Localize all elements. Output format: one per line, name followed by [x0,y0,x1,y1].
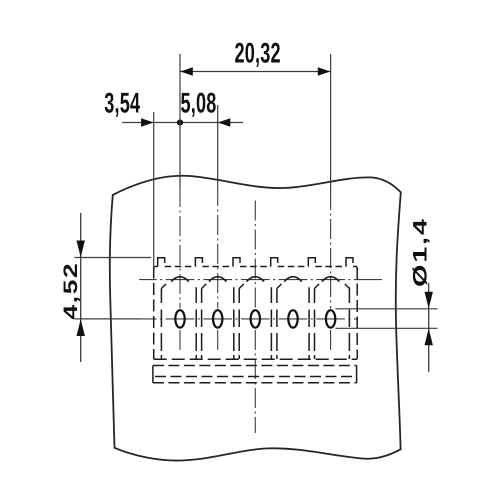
extension line housing left edge [153,112,155,266]
housing top profile with latch tabs (hidden line) [154,258,358,267]
dimension 4,52 (tab top to hole centerline) [60,213,151,362]
svg-text:4,52: 4,52 [60,262,82,320]
housing right outer wall (hidden) [356,267,358,359]
contact chamber walls with chamfers (hidden) [161,284,349,359]
housing left outer wall (hidden) [153,267,155,360]
flange right edge [356,366,358,383]
flange left edge [152,366,154,383]
svg-text:5,08: 5,08 [181,88,217,120]
svg-text:Ø1,4: Ø1,4 [410,217,432,287]
hole pin 5 (oblong 1.4 mm) [326,310,335,327]
pin 2 centerline (dash-dot) [217,186,219,353]
pin 5 centerline (dash-dot) [330,190,332,353]
dimension Ø1,4 (hole diameter) [336,217,438,372]
hole pin 3 (oblong 1.4 mm) [251,310,260,327]
pin 1 centerline (dash-dot) [179,187,181,353]
svg-text:20,32: 20,32 [235,37,281,69]
dimension 20,32 (pin 1 to pin 5) [180,37,331,75]
hole pin 1 (oblong 1.4 mm) [175,310,184,327]
pin collar arcs on centerline [171,277,339,282]
extension line pin 5 (solid upper part) [330,54,332,190]
hole pin 4 (oblong 1.4 mm) [288,310,297,327]
dimension 3,54 (left edge to pin 1) and 5,08 (pitch) [104,88,243,127]
extension line pin 2 (solid upper part) [217,105,219,186]
extension line pin 1 (solid upper part) [179,54,181,187]
hole pin 2 (oblong 1.4 mm) [213,310,222,327]
board outline (broken-edge PCB section) [110,176,401,461]
horizontal centerline through pin collars (dash-dot) [139,279,382,281]
chamber bottom edge (hidden) [154,358,358,360]
pin 3 centerline (vertical symmetry axis, dash-dot) [254,201,256,434]
svg-text:3,54: 3,54 [104,88,140,120]
horizontal centerline through holes (dash-dot) [140,318,357,320]
flange bottom edge (hidden) [153,382,357,384]
solder-side flange top edge (hidden) [153,365,357,367]
flange mid line (hidden) [155,376,354,378]
